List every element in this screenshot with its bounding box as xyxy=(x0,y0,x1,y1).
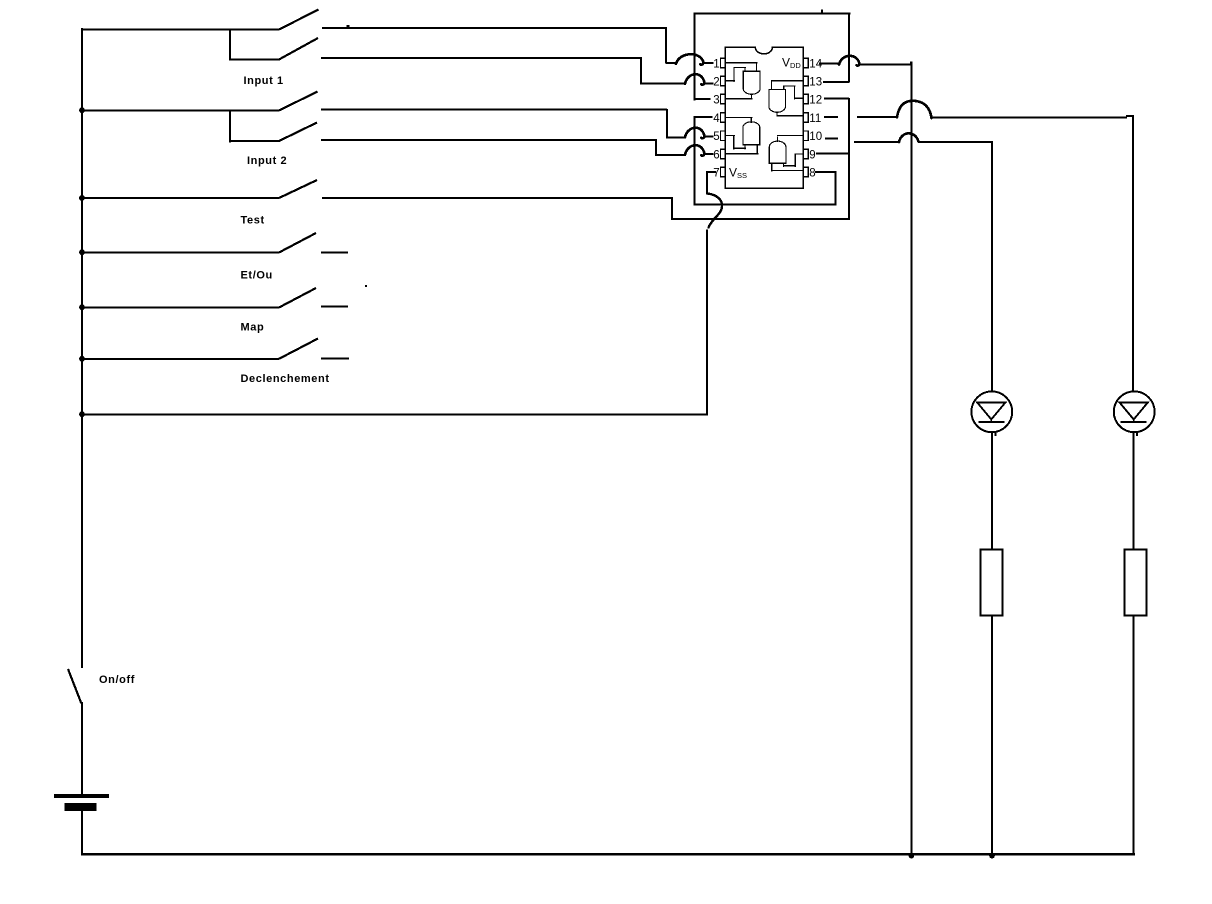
label VDD xyxy=(782,56,801,71)
wire: gate U1a output to pin 3 xyxy=(725,94,752,100)
wire: pin 8 to gate U1d input xyxy=(771,163,803,171)
lamp L1 bar element xyxy=(978,421,1004,423)
svg-text:10: 10 xyxy=(809,131,822,143)
wire hop: pin 6 wire over pin 4 vertical wire xyxy=(685,145,704,156)
wire: tee to switch S2b (Input 2 lower pole) xyxy=(229,140,280,142)
wire: pin 13 to gate U1b input xyxy=(771,80,804,90)
wire: pin 9 to gate U1d input xyxy=(783,153,803,166)
wire: IC pin 7 VSS lead (left then down, S-hop over the two bottom runs, down to bus row) xyxy=(706,171,722,415)
wire: resistor R2 to ground rail xyxy=(1133,615,1135,854)
wire: bottom ground rail xyxy=(81,853,1135,856)
pin box 3 xyxy=(721,94,726,104)
wire: On/off switch to battery positive plate xyxy=(81,702,83,795)
lamp L2 bar element xyxy=(1121,421,1147,423)
pin box 4 xyxy=(721,113,726,123)
op IC U1 body (DIP-14 outline) xyxy=(725,47,803,188)
lamp L2 triangle element xyxy=(1120,403,1148,422)
switch S1b blade xyxy=(279,38,318,60)
pin box 5 xyxy=(721,131,726,141)
wire: pin 6 to gate U1c input xyxy=(725,145,758,155)
lamp L1 triangle element xyxy=(977,403,1005,422)
wire: S2a contact to IC pin 5 (runs right, down, hop over pin4 wire) xyxy=(321,108,714,138)
pin box 1 xyxy=(721,58,726,68)
svg-text:DD: DD xyxy=(790,61,801,70)
svg-text:14: 14 xyxy=(809,58,822,70)
wire: pin 12 to gate U1b input xyxy=(783,86,803,100)
wire: S4 open contact stub xyxy=(321,251,348,253)
wire: S1a contact to IC pin 1 (runs right, down, hop over box edge) xyxy=(322,25,714,64)
wire: lamp L2 to resistor R2 xyxy=(1133,432,1139,551)
wire: bus to switch S6 (Declenchement) xyxy=(81,358,279,360)
pin box 12 xyxy=(803,94,808,104)
wire: S2a stub tee down to S2b xyxy=(229,109,231,142)
svg-text:13: 13 xyxy=(809,76,822,88)
switch S2a blade xyxy=(279,92,318,111)
svg-text:Map: Map xyxy=(241,321,265,333)
pin box 8 xyxy=(803,167,808,177)
lamp L2 circle xyxy=(1114,391,1155,432)
battery B1 negative plate xyxy=(65,803,97,811)
svg-text:V: V xyxy=(782,56,790,70)
wire: IC pin 14 VDD to right-side down conductor (hop over box edge) xyxy=(819,56,912,854)
wire hop: pin 5 wire over pin 4 vertical wire xyxy=(685,128,704,139)
junction: ground rail / lamp L1 branch at x=992 xyxy=(989,853,995,859)
switch S6 blade xyxy=(279,339,318,359)
wire: IC pin 4 to IC pin 8 loop (left edge, bottom run, up to pin 8) xyxy=(693,116,836,206)
wire: lamp L1 to resistor R1 xyxy=(991,432,997,551)
wire hop: pin 1 wire over outer box left edge xyxy=(676,54,703,65)
wire: S5 open contact stub xyxy=(321,306,348,308)
resistor R2 body xyxy=(1125,550,1147,616)
pin box 2 xyxy=(721,76,726,86)
svg-text:2: 2 xyxy=(713,76,719,88)
wire: pin 2 to gate U1a input xyxy=(725,67,746,82)
pin box 11 xyxy=(803,113,808,123)
battery B1 positive plate xyxy=(54,794,109,798)
wire: IC pin 10 stub dash xyxy=(825,137,838,139)
svg-text:On/off: On/off xyxy=(99,674,135,686)
wire: bus to switch S2a (Input 2 upper pole) xyxy=(81,109,279,111)
switch S7 On/off blade (open) xyxy=(68,669,81,704)
wire: S6 open contact stub xyxy=(321,357,349,359)
svg-text:3: 3 xyxy=(713,94,719,106)
svg-text:V: V xyxy=(729,166,737,180)
switch S2b blade xyxy=(279,123,317,142)
svg-text:7: 7 xyxy=(713,167,719,179)
pin box 6 xyxy=(721,149,726,159)
wire: bus to switch S3 (Test) xyxy=(81,197,279,199)
wire: pin 1 to gate U1a input xyxy=(725,62,757,71)
wire: tee to switch S1b (Input 1 lower pole) xyxy=(229,59,280,61)
wire: S3 Test contact to IC pin 12 and pin 9 (right, down, along bottom, up right side) xyxy=(322,98,850,220)
svg-text:Test: Test xyxy=(241,214,265,226)
svg-text:4: 4 xyxy=(713,113,720,125)
wire: bus to IC pin 7 VSS return (horizontal run) xyxy=(81,413,708,415)
wire: bus to switch S4 (Et/Ou) xyxy=(81,251,279,253)
stray dot artifact xyxy=(365,285,367,287)
wire: gate U1d output to pin 10 xyxy=(777,135,804,142)
lamp L1 circle xyxy=(971,391,1012,432)
pin box 7 xyxy=(721,167,726,177)
switch S5 blade xyxy=(279,288,316,308)
pin box 10 xyxy=(803,131,808,141)
svg-text:9: 9 xyxy=(809,149,815,161)
wire: IC pin 11 stub dash xyxy=(824,116,838,118)
wire: pin 11 net to lamp L2 (hop over VDD conductor, right, down) xyxy=(857,101,1134,392)
junction node: bus / Input 2 row xyxy=(79,107,85,113)
resistor R1 body xyxy=(981,550,1003,616)
junction node: bus / Declenchement row xyxy=(79,356,85,362)
wire: bus to switch S5 (Map) xyxy=(81,306,279,308)
gate U1b body (AND, output down to pin 11) xyxy=(769,90,786,113)
junction node: bus / Test row xyxy=(79,195,85,201)
wire: pin 5 to gate U1c input xyxy=(725,135,746,150)
junction node: bus / Et-Ou row xyxy=(79,249,85,255)
svg-text:6: 6 xyxy=(713,149,719,161)
label VSS xyxy=(729,166,747,181)
svg-text:5: 5 xyxy=(713,131,719,143)
wire: battery negative to ground rail xyxy=(81,811,83,855)
wire: resistor R1 to ground rail xyxy=(991,615,993,854)
wire: S1b contact to IC pin 2 (runs right, down, hop over box edge) xyxy=(321,57,714,85)
junction: ground rail / VDD return at x=911 xyxy=(909,853,915,859)
svg-text:Et/Ou: Et/Ou xyxy=(241,269,273,281)
svg-text:Declenchement: Declenchement xyxy=(241,373,330,385)
gate U1a body (AND, output down to pin 3) xyxy=(743,71,760,94)
wire: outer loop IC pin 3 to IC pin 13 (up left edge, along top, down right edge) xyxy=(693,10,850,101)
switch S1a blade xyxy=(279,10,319,30)
svg-text:11: 11 xyxy=(809,113,821,125)
svg-text:Input 1: Input 1 xyxy=(244,75,284,87)
svg-text:8: 8 xyxy=(809,167,815,179)
wire: pin 10 net to lamp L1 (hop over VDD conductor, right, down) xyxy=(854,133,993,392)
gate U1d body (AND, output up to pin 10) xyxy=(769,141,786,163)
wire: gate U1b output to pin 11 xyxy=(776,112,803,117)
wire hop: pin 2 wire over outer box left edge xyxy=(685,74,704,85)
junction node: bus / VSS return row xyxy=(79,411,85,417)
switch S4 blade xyxy=(279,233,316,253)
svg-text:1: 1 xyxy=(713,58,719,70)
pin box 14 xyxy=(803,58,808,68)
svg-text:12: 12 xyxy=(809,94,822,106)
svg-text:Input 2: Input 2 xyxy=(247,155,287,167)
pin box 13 xyxy=(803,76,808,86)
wire: S1a stub tee down to S1b xyxy=(229,29,231,61)
svg-text:SS: SS xyxy=(737,171,747,180)
pin box 9 xyxy=(803,149,808,159)
gate U1c body (AND, output up to pin 4) xyxy=(743,122,760,145)
wire: bus to switch S1a (Input 1 upper pole) xyxy=(81,29,279,31)
junction node: bus / Map row xyxy=(79,304,85,310)
wire: gate U1c output to pin 4 xyxy=(725,117,752,123)
switch S3 blade xyxy=(279,180,317,198)
wire: left supply bus vertical (top corner to On/off switch) xyxy=(81,28,83,668)
wire: S2b contact to IC pin 6 (runs right, down, hop over pin4 wire) xyxy=(321,139,714,156)
